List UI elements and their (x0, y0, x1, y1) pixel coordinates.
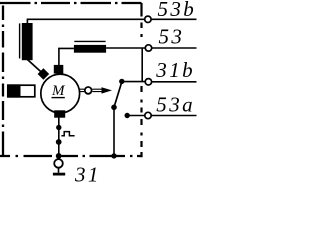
terminal 31b circle (145, 79, 151, 85)
wire from terminal 31b to right edge (152, 81, 197, 83)
wire from pivot down to chassis border (113, 107, 115, 156)
wire from terminal 53a to right edge (151, 115, 196, 117)
wire border to terminal 31 (58, 156, 60, 159)
svg-text:53a: 53a (156, 93, 195, 117)
contact dot 31b (119, 79, 124, 84)
mechanical link double line left (79, 89, 84, 91)
wire from winding L2 to top brush (59, 48, 74, 65)
svg-text:53b: 53b (158, 0, 197, 21)
bottom brush square (54, 110, 65, 117)
field winding L2 (horizontal filled rect) (74, 45, 106, 53)
link wire between 53 and 31b (141, 48, 143, 82)
svg-text:M: M (51, 83, 66, 99)
wire from terminal 53b to right edge (151, 18, 196, 20)
junction dot on bottom border (56, 153, 62, 159)
wire from terminal 53 to right edge (152, 47, 197, 49)
motor M underline (52, 97, 65, 99)
terminal 53b circle (145, 16, 151, 22)
enclosure dash-dot border left (2, 6, 4, 157)
wire contact to terminal 31b (122, 81, 145, 83)
junction dot upper (56, 125, 61, 130)
svg-text:31: 31 (74, 163, 101, 185)
contact dot 53a (125, 113, 130, 118)
ground bar (53, 173, 65, 176)
junction dot lower (56, 139, 62, 145)
wire from bottom brush to ground terminal (58, 118, 60, 157)
wire contact to terminal 53a (127, 115, 145, 117)
wire from winding L2 to terminal 53 (106, 47, 145, 49)
mechanical link arrowhead (102, 87, 113, 93)
top brush square (54, 65, 64, 74)
field winding L2 core line (horizontal) (74, 40, 105, 42)
mechanical link double line right (92, 89, 102, 91)
terminal 53 circle (145, 45, 151, 51)
svg-text:53: 53 (159, 25, 185, 49)
terminal 31 circle (54, 159, 63, 168)
field winding L1 (vertical filled rect) (22, 23, 33, 60)
motor circle (41, 74, 80, 113)
wiper motor circuit schematic (0, 0, 200, 185)
thermal switch body outline (8, 85, 35, 97)
switch pivot junction dot (111, 105, 117, 111)
enclosure dash-dot border right (140, 3, 142, 157)
thermal switch filled half (7, 84, 21, 97)
junction dot on chassis border (111, 153, 116, 158)
enclosure dash-dot border bottom (0, 155, 142, 157)
mechanical link ring (85, 87, 92, 94)
wire diagonal from winding L1 to third brush (27, 60, 43, 75)
terminal 53a circle (145, 112, 151, 118)
ground stub (58, 168, 60, 173)
enclosure dash-dot border top (0, 2, 142, 4)
svg-text:31b: 31b (155, 58, 195, 82)
field winding L1 core line (vertical) (19, 23, 21, 58)
pulse symbol (intermittent) (61, 132, 74, 136)
switch arm (movable contact) (114, 79, 123, 107)
third brush diamond (38, 68, 50, 80)
wire from winding L1 top to terminal 53b (27, 19, 144, 23)
